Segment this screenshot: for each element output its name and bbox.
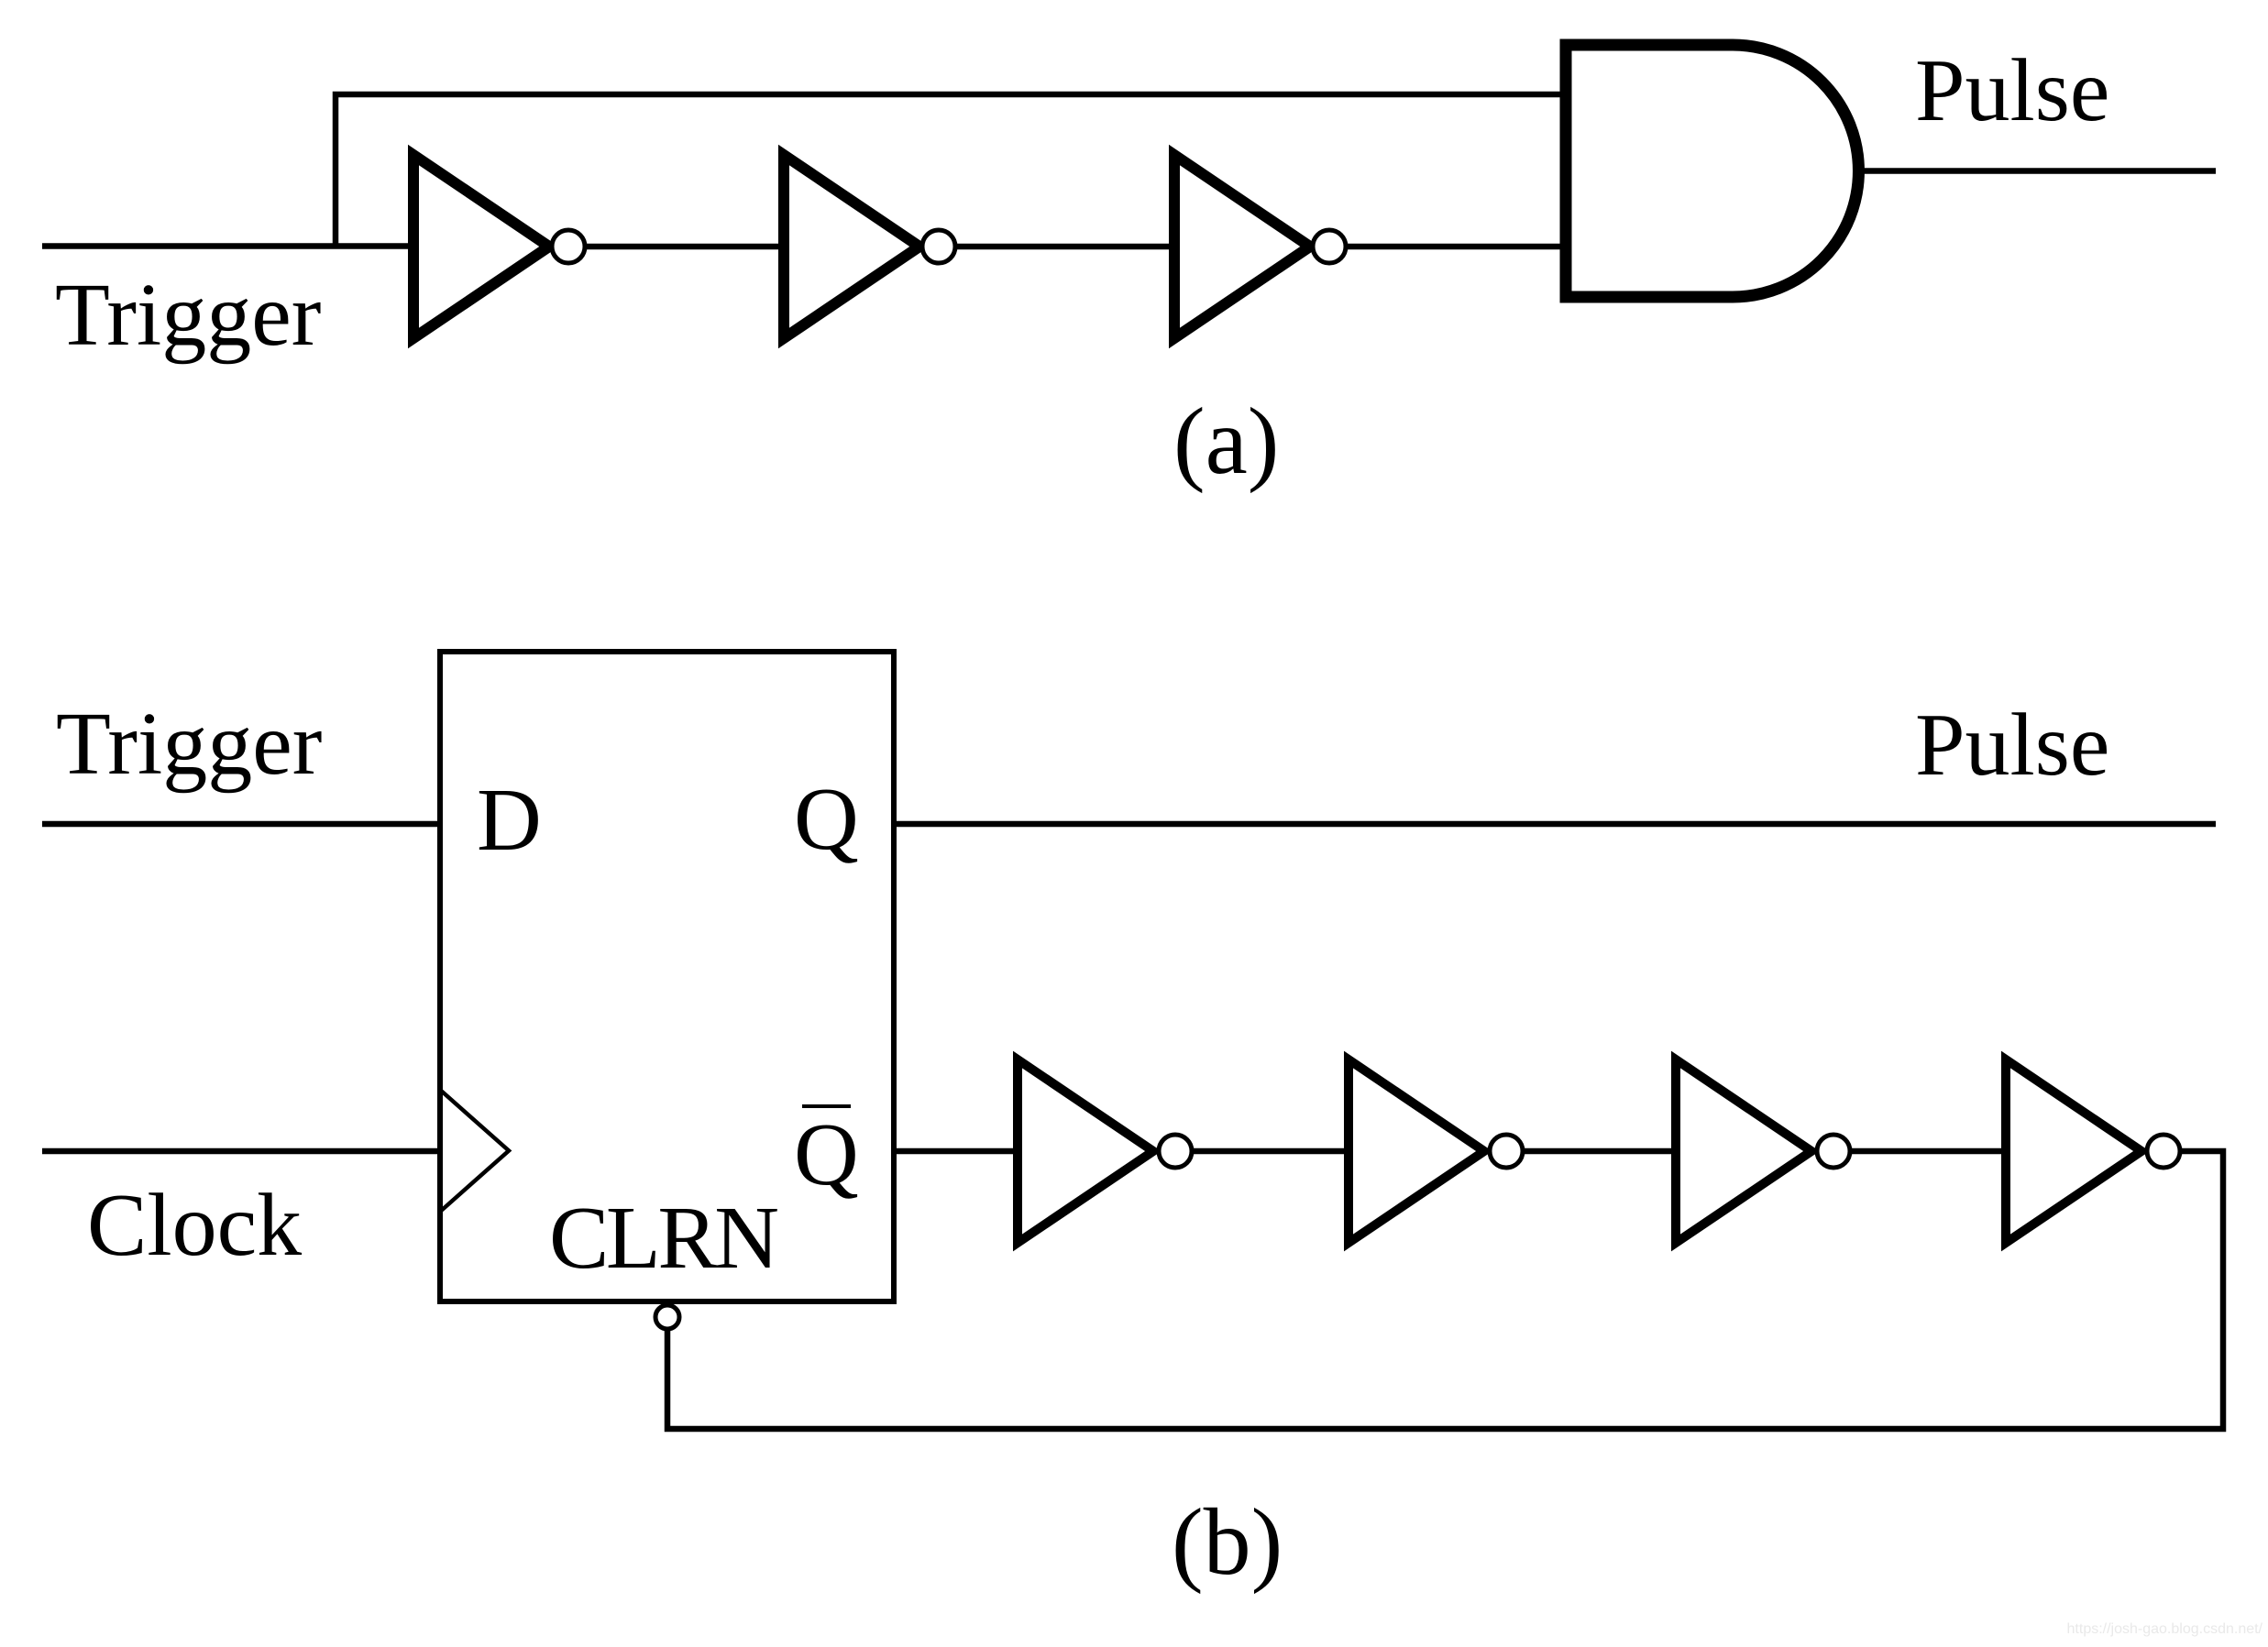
wire Trigger input: [42, 243, 413, 249]
inverter U3 triangle: [1174, 155, 1310, 338]
CLRN bubble: [655, 1305, 679, 1329]
wire U7 to U8: [1525, 1148, 1676, 1155]
inverter U6 bubble: [1159, 1135, 1192, 1168]
svg-text:Q: Q: [794, 1105, 859, 1204]
inverter U7 triangle: [1349, 1060, 1484, 1243]
inverter U2 bubble: [922, 230, 955, 263]
svg-text:Trigger: Trigger: [55, 266, 321, 365]
inverter U8 triangle: [1676, 1060, 1811, 1243]
wire Qbar to inverter chain: [894, 1148, 1018, 1155]
wire Trigger to D input: [42, 821, 440, 828]
svg-text:Pulse: Pulse: [1915, 41, 2109, 140]
wire U3 to AND bottom input: [1348, 244, 1566, 250]
inverter U9 triangle: [2006, 1060, 2141, 1243]
svg-text:(b): (b): [1172, 1489, 1283, 1595]
inverter U3 bubble: [1313, 230, 1346, 263]
inverter U6 triangle: [1018, 1060, 1153, 1243]
inverter U8 bubble: [1817, 1135, 1850, 1168]
inverter U7 bubble: [1490, 1135, 1523, 1168]
svg-text:Pulse: Pulse: [1915, 696, 2109, 795]
wire U6 to U7: [1194, 1148, 1349, 1155]
svg-text:D: D: [477, 771, 542, 870]
svg-text:Q: Q: [794, 770, 859, 869]
wire Q output to Pulse: [894, 821, 2216, 828]
wire Pulse output (a): [1862, 168, 2216, 174]
svg-text:(a): (a): [1173, 389, 1279, 494]
svg-text:Trigger: Trigger: [56, 695, 322, 794]
inverter U1 triangle: [413, 155, 549, 338]
wire U1 to U2: [587, 244, 784, 250]
AND gate U4: [1566, 45, 1858, 297]
inverter U9 bubble: [2147, 1135, 2180, 1168]
wire U2 to U3: [957, 244, 1174, 250]
inverter U2 triangle: [784, 155, 919, 338]
wire Clock input: [42, 1148, 440, 1155]
clock edge-trigger symbol: [440, 1090, 509, 1212]
svg-text:https://josh-gao.blog.csdn.net: https://josh-gao.blog.csdn.net/: [2067, 1621, 2263, 1637]
wire U8 to U9: [1852, 1148, 2006, 1155]
inverter U1 bubble: [552, 230, 585, 263]
wire feedback branch to AND top input: [336, 94, 1566, 247]
svg-text:Clock: Clock: [87, 1176, 302, 1275]
svg-text:CLRN: CLRN: [549, 1189, 779, 1288]
D flip-flop U5 box: [440, 652, 894, 1301]
wire feedback U9 to CLRN: [667, 1151, 2223, 1429]
pin label Qbar overline: [802, 1104, 851, 1108]
